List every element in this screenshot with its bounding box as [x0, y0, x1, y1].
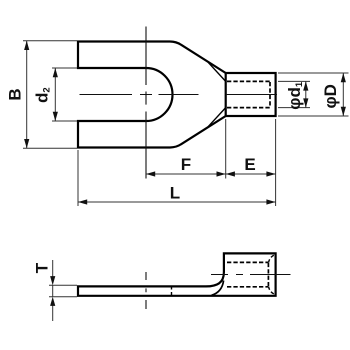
d2 arrow bottom	[53, 112, 58, 121]
L arrow right	[266, 199, 275, 204]
B arrow bottom	[24, 139, 29, 148]
barrel rectangle (top view)	[226, 73, 276, 116]
side hidden hole bottom (dashed)	[227, 286, 268, 288]
svg-text:φD: φD	[321, 84, 340, 108]
d2 extension line top	[52, 67, 77, 69]
d1 dimension line	[305, 81, 307, 107]
d2 dimension line	[54, 68, 56, 121]
E arrow left	[226, 171, 235, 176]
side hidden hole end (dashed vertical)	[267, 263, 269, 287]
inner bend curve	[212, 281, 224, 296]
d1 arrow bottom	[303, 98, 308, 107]
E dimension line	[226, 173, 276, 175]
d2 extension line bottom	[52, 120, 77, 122]
side profile outline	[78, 253, 276, 295]
T arrow bottom (pointing up)	[50, 297, 55, 306]
D arrow top	[341, 73, 346, 82]
d1 extension line top	[278, 80, 310, 82]
D dimension line	[342, 73, 344, 116]
svg-text:B: B	[6, 88, 25, 100]
L dimension line	[78, 201, 276, 203]
svg-text:L: L	[170, 184, 180, 203]
hidden slot end line (dashed)	[171, 286, 173, 297]
transition line bottom	[208, 108, 226, 127]
E arrow right	[266, 171, 275, 176]
d2 arrow top	[53, 68, 58, 77]
transition line top	[208, 62, 226, 81]
svg-text:T: T	[33, 262, 52, 273]
B arrow top	[24, 41, 29, 50]
side flare chamfer top (dashed)	[269, 255, 274, 262]
side horizontal centerline	[211, 274, 291, 276]
L extension line left	[77, 150, 79, 206]
d1 arrow top	[303, 81, 308, 90]
F dimension line	[146, 173, 226, 175]
D arrow bottom	[341, 107, 346, 116]
T arrow line bottom	[52, 305, 54, 321]
T arrow top (pointing down)	[50, 276, 55, 285]
svg-text:E: E	[244, 155, 255, 174]
horizontal centerline	[80, 94, 278, 96]
E extension line right	[275, 119, 277, 206]
vertical centerline	[145, 27, 147, 179]
fork taper top edge	[170, 42, 226, 74]
T extension line top	[49, 284, 77, 286]
fork outline (spade terminal top view)	[78, 42, 226, 148]
B dimension line	[26, 41, 28, 148]
F arrow right	[217, 171, 226, 176]
D extension line top	[278, 72, 349, 74]
L arrow left	[78, 199, 87, 204]
side hidden hole top (dashed)	[227, 261, 268, 263]
D extension line bottom	[278, 115, 349, 117]
hidden hole top (dashed)	[227, 80, 270, 82]
T dimension line through	[52, 285, 54, 296]
hidden hole end (dashed vertical)	[269, 82, 271, 108]
T extension line bottom	[49, 296, 77, 298]
E extension line left	[225, 119, 227, 179]
B extension line top	[23, 40, 77, 42]
d1 extension line bottom	[278, 107, 310, 109]
hidden hole bottom (dashed)	[227, 107, 270, 109]
svg-text:F: F	[181, 155, 191, 174]
side vertical centerline at slot center	[145, 272, 147, 309]
side flare chamfer bottom (dashed)	[269, 287, 274, 294]
B extension line bottom	[23, 147, 77, 149]
T arrow line top	[52, 260, 54, 277]
F arrow left	[146, 171, 155, 176]
